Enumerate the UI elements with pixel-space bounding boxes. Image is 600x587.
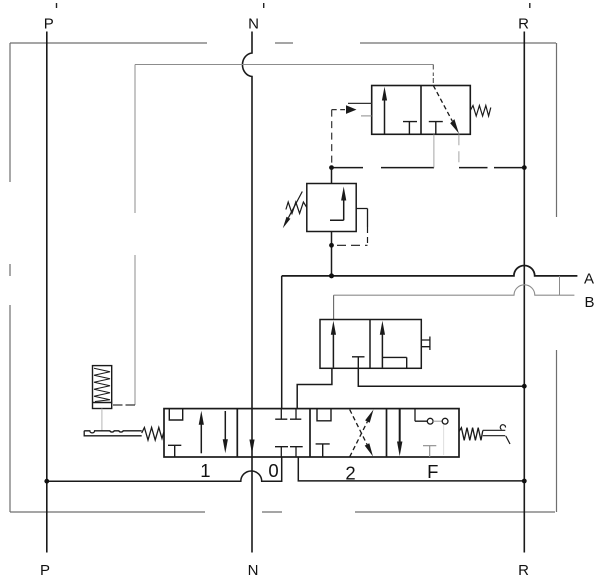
wire bottom left P to valve — [47, 457, 282, 481]
node V2 drain at R — [522, 384, 527, 389]
MV position 2 crossed arrow b — [350, 422, 368, 457]
lever bar with notches — [84, 431, 142, 436]
actuator hook end — [500, 425, 505, 430]
MV position F bottom T — [423, 446, 436, 457]
V1 right position blocked port T — [429, 122, 443, 135]
tick above R — [529, 3, 531, 8]
wire B line — [334, 285, 575, 295]
RV pilot tap dashed return — [367, 227, 369, 245]
node A line junction — [329, 273, 334, 278]
wire P line — [46, 32, 48, 553]
V1 left position flow arrow — [384, 99, 386, 134]
svg-text:N: N — [248, 562, 259, 579]
node bottom R junction — [522, 479, 527, 484]
valve V1 (top 2-position valve) body — [372, 86, 471, 135]
V1 right position dashed transient arrow — [433, 86, 452, 122]
enclosure border top (chain line) — [10, 42, 556, 44]
svg-text:R: R — [518, 16, 529, 33]
svg-text:R: R — [518, 562, 529, 579]
node drain-pilot junction — [329, 165, 334, 170]
detent spring housing — [93, 366, 112, 409]
RV pilot tap right side — [356, 209, 367, 228]
wire A-B end connector — [559, 276, 561, 295]
svg-text:A: A — [584, 271, 594, 288]
MV position 1 port notch — [169, 409, 182, 420]
node P junction — [44, 479, 49, 484]
V1 left position blocked port T — [403, 122, 417, 135]
V1 pilot arrow — [332, 109, 345, 111]
RV adjustable spring left — [286, 202, 307, 214]
valve MV (main directional valve) body — [164, 409, 459, 457]
wire pilot line horizontal y=64.5 — [135, 64, 433, 66]
MV position 0 bottom blocked T a — [275, 447, 288, 457]
wire relief inlet from junction — [331, 168, 333, 184]
wire bottom right valve to R — [298, 457, 524, 481]
MV position 2 blocked T — [316, 444, 330, 457]
MV position 0 top blocked T a — [275, 409, 287, 420]
V2 right position flow arrow — [381, 334, 383, 368]
MV position 0 bottom blocked T b — [290, 447, 303, 457]
node drain at R line — [522, 165, 527, 170]
wire A line — [282, 266, 578, 276]
svg-text:0: 0 — [268, 460, 278, 481]
MV position 0 N-flow arrow — [249, 440, 254, 454]
MV position 1 blocked T — [168, 445, 181, 457]
node RV drain junction — [329, 243, 334, 248]
MV position 1 up arrow — [200, 424, 202, 453]
MV position 2 crossed arrow a — [350, 410, 367, 445]
svg-text:P: P — [44, 16, 54, 33]
wire housing plunger to lever — [101, 409, 103, 431]
wire pilot dashed vertical x=331.7 — [331, 110, 333, 166]
wire V2 drain to R line — [358, 368, 524, 386]
tick above N — [263, 3, 265, 8]
svg-text:1: 1 — [200, 460, 210, 481]
V2 capped port right — [421, 337, 430, 351]
dashed link housing to valve — [113, 404, 135, 406]
spring lever to valve — [142, 428, 164, 441]
V1 pilot actuator lines left — [348, 102, 372, 104]
actuator tail stroke — [506, 436, 510, 444]
wire V1 drain drop x=458.9 (dashed) — [458, 134, 460, 167]
spring inside housing — [94, 368, 110, 401]
MV position F detent circles — [415, 409, 427, 422]
svg-text:F: F — [427, 461, 438, 482]
RV adjustment arrow — [288, 192, 302, 218]
wire RV outlet down — [331, 232, 333, 276]
RV internal flow path — [330, 200, 344, 220]
MV position 0 top blocked T b — [290, 409, 301, 420]
MV position 2 port notch — [317, 409, 331, 421]
svg-text:N: N — [248, 16, 259, 33]
svg-text:B: B — [584, 294, 594, 311]
wire B line drop to valve V2 — [333, 295, 335, 319]
MV position 1 down arrow — [224, 411, 226, 440]
V1 spring right — [470, 106, 491, 117]
enclosure border right — [556, 43, 558, 512]
valve RV (pilot relief valve) body — [307, 184, 356, 232]
svg-text:P: P — [40, 562, 50, 579]
wire N line top with hop over pilot line — [242, 32, 252, 409]
wire drain dashed line y=167.6 — [332, 167, 525, 169]
wire pilot line vertical x=135 (with gap) — [134, 65, 136, 406]
enclosure border bottom — [10, 511, 555, 513]
wire N line through valve and below — [251, 409, 253, 553]
wire R line — [523, 32, 525, 553]
actuator rod right — [483, 430, 506, 435]
tick above P — [56, 3, 58, 8]
wire A line drop to main valve — [281, 276, 283, 409]
spring right of main valve — [459, 428, 483, 441]
MV position F down arrow — [399, 409, 401, 442]
V2 right position L path — [382, 357, 406, 368]
valve V2 (B-port 2-position valve) body — [320, 320, 421, 369]
wire V2 bottom port to main valve — [297, 368, 332, 408]
V2 left position flow arrow — [332, 334, 334, 368]
V2 left position blocked port T — [352, 357, 365, 369]
enclosure border left — [9, 43, 11, 512]
wire pilot drop into top valve — [432, 65, 434, 86]
wire V1 outlet drop x=433.9 — [433, 134, 435, 167]
